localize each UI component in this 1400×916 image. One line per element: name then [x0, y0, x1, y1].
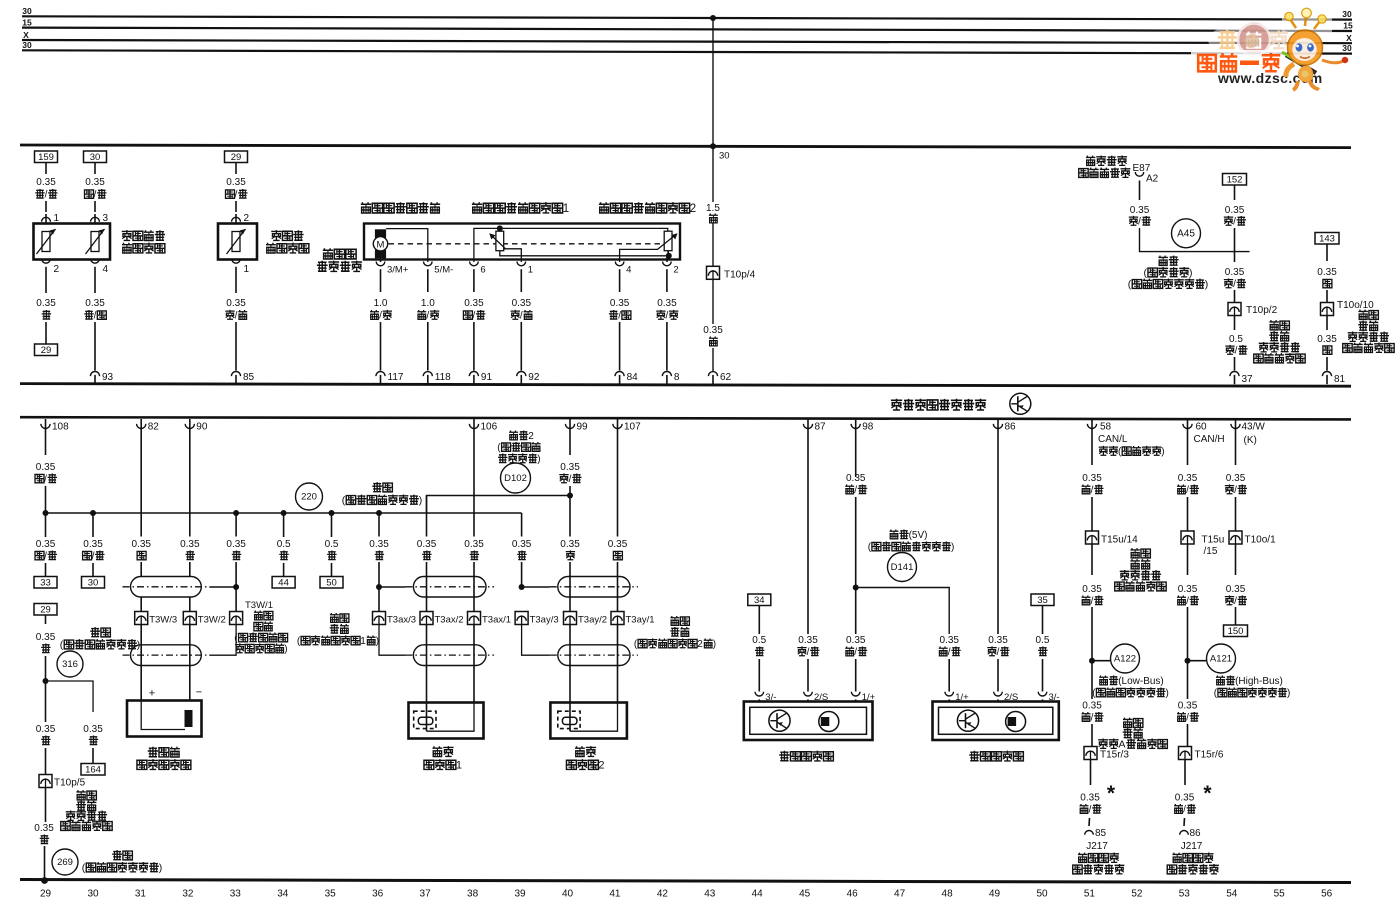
svg-text:X: X [23, 30, 29, 40]
D141 circle [888, 553, 917, 582]
logo weikuyixia [1198, 55, 1216, 71]
svg-text:/: / [854, 647, 857, 658]
svg-text:3/M+: 3/M+ [387, 265, 409, 276]
svg-text:): ) [159, 862, 163, 874]
svg-text:33: 33 [230, 889, 242, 900]
pin2 wire [666, 256, 668, 262]
svg-text:35: 35 [325, 889, 337, 900]
plug text brown [1358, 310, 1367, 320]
svg-text:43/W: 43/W [1242, 422, 1266, 433]
bus elbow to KS2 shield [521, 513, 523, 533]
wire [45, 788, 47, 822]
svg-text:0.35: 0.35 [610, 298, 630, 309]
pin 87 [807, 419, 809, 430]
ground label [372, 482, 382, 492]
svg-text:98: 98 [862, 422, 874, 433]
svg-text:A121: A121 [1210, 654, 1232, 665]
pin 3/- G40 [755, 692, 764, 696]
svg-text:62: 62 [720, 372, 732, 383]
pin 2/S G40 [804, 692, 813, 696]
svg-text:1: 1 [563, 203, 569, 215]
svg-text:0.35: 0.35 [1175, 793, 1195, 804]
G40 magnet [819, 712, 839, 732]
svg-text:159: 159 [38, 152, 54, 163]
svg-text:0.35: 0.35 [1082, 584, 1102, 595]
wire below pin1 intake [235, 278, 237, 293]
svg-text:107: 107 [624, 422, 641, 433]
svg-text:1.0: 1.0 [374, 298, 388, 309]
wire col33 bus->T3W1 [235, 513, 237, 537]
wire [1235, 545, 1237, 576]
svg-text:1: 1 [244, 264, 250, 275]
pot ground line [500, 251, 669, 256]
svg-text:0.35: 0.35 [417, 539, 437, 550]
stub col30 label->box [92, 563, 94, 577]
wires pills knock2 [569, 486, 571, 537]
connector T15u/15 [1181, 531, 1194, 544]
pin 60 CAN/H [1187, 419, 1189, 430]
svg-text:0.5: 0.5 [277, 539, 291, 550]
connector T10p/2 [1228, 303, 1241, 316]
terminal box 29 (ground) [35, 344, 58, 356]
svg-text:5/M-: 5/M- [434, 265, 453, 276]
connector T15r/3 [1084, 747, 1097, 760]
svg-text:0.35: 0.35 [1225, 205, 1245, 216]
motor wire to pin3 [380, 258, 382, 262]
wire col30 to 164 [92, 748, 94, 764]
pin 37 [1230, 372, 1239, 377]
G61 dashed element [414, 711, 436, 728]
svg-text:A2: A2 [1146, 174, 1159, 185]
label High-Bus [1216, 676, 1225, 685]
svg-text:0.35: 0.35 [36, 177, 56, 188]
connector T3ay/1 [611, 612, 624, 625]
svg-text:30: 30 [87, 889, 99, 900]
svg-text:4: 4 [103, 264, 109, 275]
ground junction 269 [41, 877, 48, 884]
svg-text:/: / [1186, 713, 1189, 724]
stub 35 [1042, 606, 1044, 635]
bus junction col36 [376, 510, 382, 516]
shield tap knock2 [522, 586, 550, 588]
wire [1091, 724, 1093, 746]
svg-text:85: 85 [243, 372, 255, 383]
wire 43/W [1235, 430, 1237, 466]
svg-text:164: 164 [85, 764, 101, 775]
bus line X [22, 40, 1352, 43]
pin 90 [189, 419, 191, 430]
svg-text:1.0: 1.0 [421, 298, 435, 309]
svg-text:T15u: T15u [1202, 535, 1225, 546]
connector T3ax/3 [373, 612, 386, 625]
logo mascot [1282, 8, 1348, 91]
wire 87 down [807, 430, 809, 635]
ground label 269 [112, 850, 122, 860]
pin 58 CAN/L [1091, 419, 1093, 430]
terminal box 44 [272, 577, 295, 589]
wire col36 bus->T3ax3 [378, 513, 380, 537]
circle 269 [52, 849, 78, 875]
svg-text:−: − [196, 687, 202, 699]
svg-text:1: 1 [528, 265, 533, 276]
label G40 [779, 751, 789, 761]
svg-text:/: / [997, 647, 1000, 658]
logo text zhao [1218, 30, 1237, 48]
svg-text:): ) [1166, 688, 1169, 699]
G66 dashed element [558, 711, 580, 728]
svg-text:51: 51 [1084, 889, 1096, 900]
terminal box 30 [82, 577, 105, 589]
shield wire T3ay/3 [522, 625, 550, 655]
connector T10p/4 [707, 266, 720, 279]
svg-text:29: 29 [40, 889, 52, 900]
svg-text:1: 1 [456, 760, 462, 772]
svg-text:/: / [426, 311, 429, 322]
svg-text:/: / [1233, 217, 1236, 228]
connector T10o/1 [1229, 531, 1242, 544]
pot1 junction [497, 225, 503, 231]
D102 connection circle [501, 463, 531, 493]
svg-text:152: 152 [1227, 174, 1243, 185]
svg-text:/: / [44, 474, 47, 485]
svg-text:/: / [1186, 596, 1189, 607]
svg-text:T3ay/3: T3ay/3 [530, 615, 559, 626]
svg-text:53: 53 [1179, 889, 1191, 900]
wire col33 b [235, 562, 237, 612]
svg-text:/: / [94, 190, 97, 201]
wire col48 b [948, 659, 950, 692]
A122 circle [1111, 644, 1140, 673]
pin 2/S G163 [994, 692, 1003, 696]
svg-text:T3W/3: T3W/3 [149, 615, 177, 626]
svg-text:29: 29 [41, 345, 52, 356]
pin 1/+ G40 [851, 692, 860, 696]
wire 87 down b [807, 659, 809, 692]
pin 108 [45, 419, 47, 430]
label auto trans ECU [1078, 853, 1087, 863]
label G28 [148, 747, 158, 757]
svg-text:/: / [1233, 279, 1236, 290]
pin 99 [569, 419, 571, 430]
label auto trans ECU b [1172, 853, 1181, 863]
svg-text:X: X [1346, 33, 1352, 43]
svg-text:/: / [569, 474, 572, 485]
wire to pin37 [1234, 316, 1236, 330]
ECU section2 top border [20, 417, 1351, 419]
wire 30-supply seg4 [712, 348, 714, 371]
wire [1184, 760, 1186, 785]
svg-text:J217: J217 [1086, 841, 1108, 852]
svg-text:0.35: 0.35 [464, 298, 484, 309]
circle 316 [57, 651, 83, 677]
svg-text:45: 45 [799, 889, 811, 900]
pin 85 J217 [1085, 830, 1094, 834]
svg-text:/: / [1138, 217, 1141, 228]
wire A2 elbow [1140, 228, 1250, 252]
svg-text:0.35: 0.35 [846, 635, 866, 646]
knock1 twisted pair upper [413, 577, 486, 598]
svg-text:0.35: 0.35 [988, 635, 1008, 646]
motor G186 brush bottom [375, 250, 386, 259]
svg-text:T3ax/3: T3ax/3 [387, 615, 416, 626]
shield wire T3ax/3 [379, 625, 405, 655]
knock sensor1 box G61 [409, 703, 484, 739]
svg-text:0.35: 0.35 [1317, 334, 1337, 345]
pin 1 coolant sensor [45, 201, 47, 212]
D102 link [427, 496, 571, 514]
junction on section border [710, 143, 716, 149]
mechanical dashed link [389, 243, 663, 245]
wire to pin 85 [235, 322, 237, 371]
svg-text:48: 48 [942, 889, 954, 900]
knock2 plug label [670, 616, 679, 625]
svg-text:46: 46 [847, 889, 859, 900]
plug text black [1269, 320, 1278, 330]
wire to ground bus [45, 486, 47, 513]
svg-text:0.35: 0.35 [85, 177, 105, 188]
svg-text:0.35: 0.35 [34, 823, 54, 834]
thermistor G62-2 [91, 232, 99, 252]
junction on bus 30 [710, 15, 716, 21]
svg-text:T10o/1: T10o/1 [1245, 535, 1277, 546]
pin 106 [473, 419, 475, 430]
pin 86 J217 [1180, 830, 1189, 834]
wire 35 down b [1042, 659, 1044, 692]
plug red text [1130, 548, 1139, 558]
wire 86 down b [997, 659, 999, 692]
svg-text:49: 49 [989, 889, 1001, 900]
logo white halo [1208, 23, 1292, 57]
hall sensor 1 G40 box [744, 702, 873, 741]
wire 34 down b [758, 659, 760, 692]
svg-text:0.35: 0.35 [1082, 473, 1102, 484]
svg-text:54: 54 [1226, 889, 1238, 900]
connection circle A45 [1172, 219, 1201, 248]
svg-text:T10p/2: T10p/2 [1246, 305, 1278, 316]
svg-text:0.35: 0.35 [83, 724, 103, 735]
svg-text:47: 47 [894, 889, 906, 900]
svg-text:29: 29 [40, 604, 51, 615]
wire col39 label zone [521, 533, 523, 537]
speed sensor twisted pair lower [131, 645, 202, 666]
svg-text:2: 2 [673, 265, 678, 276]
G28 inner wiring [141, 701, 185, 730]
terminal box 33 [34, 577, 57, 589]
svg-text:2: 2 [697, 639, 703, 650]
coolant temperature sensor box [34, 224, 111, 260]
svg-text:30: 30 [1342, 43, 1352, 53]
svg-text:60: 60 [1196, 422, 1208, 433]
svg-text:/: / [666, 311, 669, 322]
svg-text:/: / [1091, 485, 1094, 496]
svg-text:(: ( [60, 639, 64, 651]
label intake temp sensor [271, 230, 281, 240]
svg-text:): ) [713, 639, 716, 650]
connector T15r/6 [1179, 747, 1192, 760]
svg-text:/15: /15 [1204, 546, 1218, 557]
svg-text:): ) [284, 644, 287, 655]
svg-text:A122: A122 [1114, 654, 1136, 665]
svg-text:T3ax/1: T3ax/1 [482, 615, 511, 626]
svg-text:29: 29 [231, 152, 242, 163]
terminal box 30 [84, 151, 107, 163]
svg-text:/: / [379, 311, 382, 322]
svg-text:41: 41 [609, 889, 621, 900]
D141 junction [853, 585, 859, 591]
svg-text:(: ( [342, 495, 346, 507]
wire to ground [44, 846, 46, 880]
pin A2 cup [1135, 172, 1143, 176]
svg-text:50: 50 [326, 577, 337, 588]
svg-text:0.35: 0.35 [132, 539, 152, 550]
logo text pian [1270, 30, 1288, 48]
knock sensor2 box G66 [550, 703, 627, 739]
svg-text:0.35: 0.35 [1130, 205, 1150, 216]
connector T3ay/2 [564, 612, 577, 625]
svg-text:/: / [92, 551, 95, 562]
svg-text:30: 30 [88, 577, 99, 588]
wire 90 down [189, 430, 191, 537]
pot1 wiper to pin1 [504, 249, 522, 262]
svg-text:1/+: 1/+ [862, 692, 876, 703]
svg-text:316: 316 [62, 659, 78, 670]
branch to 164 [46, 681, 94, 712]
svg-text:82: 82 [148, 422, 160, 433]
svg-text:(K): (K) [1244, 435, 1257, 446]
svg-text:CAN/L: CAN/L [1098, 434, 1128, 445]
svg-text:91: 91 [481, 372, 493, 383]
svg-text:J217: J217 [1181, 841, 1203, 852]
svg-text:0.35: 0.35 [1178, 584, 1198, 595]
pin 93 [90, 372, 99, 377]
svg-text:T10o/10: T10o/10 [1337, 300, 1374, 311]
pin 107 [617, 419, 619, 430]
svg-text:/: / [473, 311, 476, 322]
wire 99 down [569, 430, 571, 456]
svg-text:/: / [1235, 346, 1238, 357]
pin 6 [470, 262, 479, 266]
svg-text:36: 36 [372, 889, 384, 900]
svg-text:CAN/H: CAN/H [1194, 434, 1225, 445]
svg-text:0.35: 0.35 [464, 539, 484, 550]
shield wire T3W/1 [209, 625, 236, 655]
engine speed sensor box G28 [127, 701, 202, 737]
svg-text:143: 143 [1319, 233, 1335, 244]
label G61 [432, 746, 442, 756]
svg-text:42: 42 [657, 889, 669, 900]
svg-text:108: 108 [52, 422, 69, 433]
stub col29 [45, 513, 47, 537]
svg-text:30: 30 [1342, 9, 1352, 19]
motor wire to pin5 [386, 229, 428, 262]
wire 30-supply seg3 [712, 279, 714, 324]
ECU section2 bottom border [20, 880, 1351, 883]
bus junction col29 [43, 510, 49, 516]
svg-text:): ) [137, 639, 141, 651]
pot supply line from pin6 [474, 228, 668, 262]
svg-text:0.5: 0.5 [1036, 635, 1050, 646]
svg-text:/: / [1234, 485, 1237, 496]
svg-text:/: / [235, 311, 238, 322]
svg-text:/: / [1234, 596, 1237, 607]
pin 2 [663, 262, 672, 266]
svg-text:40: 40 [562, 889, 574, 900]
svg-text:56: 56 [1321, 889, 1333, 900]
pin 85 [231, 372, 240, 377]
connector T3W/3 [135, 612, 148, 625]
svg-text:2/S: 2/S [814, 692, 828, 703]
svg-text:0.35: 0.35 [36, 298, 56, 309]
svg-text:0.35: 0.35 [560, 462, 580, 473]
svg-text:): ) [419, 495, 423, 507]
terminal box 164 [81, 764, 105, 776]
svg-text:86: 86 [1190, 828, 1202, 839]
ECU K symbol [1010, 393, 1031, 414]
wire [1088, 818, 1091, 826]
svg-text:117: 117 [388, 372, 404, 383]
svg-text:/: / [45, 190, 48, 201]
wire [1187, 724, 1189, 746]
label throttle ECU left [323, 248, 333, 259]
plug black text 2 [76, 790, 85, 800]
wire CAN/L [1091, 430, 1093, 466]
svg-text:0.35: 0.35 [940, 635, 960, 646]
svg-text:T3ax/2: T3ax/2 [435, 615, 464, 626]
knock1 twisted pair lower [413, 645, 486, 666]
svg-text:/: / [1089, 805, 1092, 816]
bus junction col30 [90, 510, 96, 516]
svg-text:220: 220 [301, 492, 317, 503]
G61 wire through [426, 703, 428, 732]
svg-text:32: 32 [182, 889, 194, 900]
pin 3/- G163 [1038, 692, 1047, 696]
wire [1091, 497, 1093, 531]
D102 label [509, 431, 518, 440]
svg-text:2: 2 [54, 264, 60, 275]
svg-text:0.35: 0.35 [226, 177, 246, 188]
A121 junction [1185, 658, 1191, 664]
pot2 bottom stub [667, 251, 669, 256]
terminal box 143 [1315, 233, 1339, 245]
wire 98 down [855, 430, 857, 478]
label AC control unit [1086, 156, 1095, 166]
svg-text:0.35: 0.35 [226, 539, 246, 550]
svg-text:T15r/3: T15r/3 [1100, 750, 1129, 761]
pin 43/W [1235, 419, 1237, 430]
intake air temperature sensor box [218, 224, 257, 260]
G66 wire through [569, 703, 571, 732]
label fuel injection ECU [891, 399, 902, 410]
svg-text:35: 35 [1037, 595, 1048, 606]
throttle control unit box J338 [364, 224, 680, 260]
svg-text:90: 90 [196, 422, 208, 433]
svg-text:(: ( [1144, 267, 1148, 279]
svg-text:/: / [1091, 596, 1094, 607]
svg-text:34: 34 [754, 595, 765, 606]
svg-text:0.35: 0.35 [798, 635, 818, 646]
pin 82 [140, 419, 142, 430]
svg-text:/: / [948, 647, 951, 658]
svg-text:0.35: 0.35 [1317, 267, 1337, 278]
svg-text:3/-: 3/- [1049, 692, 1060, 703]
throttle unit labels [361, 202, 371, 213]
label G66 [575, 746, 585, 756]
pin 2 coolant [42, 259, 51, 263]
pin 81 [1322, 372, 1331, 377]
svg-text:1: 1 [360, 636, 366, 647]
svg-text:T10p/4: T10p/4 [724, 270, 756, 281]
wire 86 down [997, 430, 999, 635]
